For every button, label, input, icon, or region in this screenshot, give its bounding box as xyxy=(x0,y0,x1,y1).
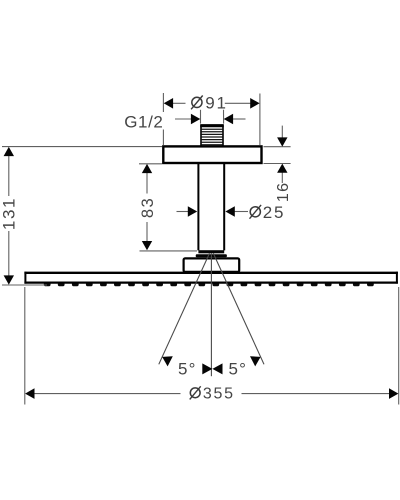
svg-text:355: 355 xyxy=(203,386,235,403)
svg-text:5°: 5° xyxy=(229,359,248,378)
svg-text:25: 25 xyxy=(263,203,286,222)
svg-text:131: 131 xyxy=(0,197,19,230)
svg-text:G1/2: G1/2 xyxy=(124,113,163,132)
svg-text:5°: 5° xyxy=(178,359,197,378)
svg-text:91: 91 xyxy=(205,94,228,113)
svg-text:83: 83 xyxy=(139,197,157,218)
svg-text:16: 16 xyxy=(275,181,292,202)
